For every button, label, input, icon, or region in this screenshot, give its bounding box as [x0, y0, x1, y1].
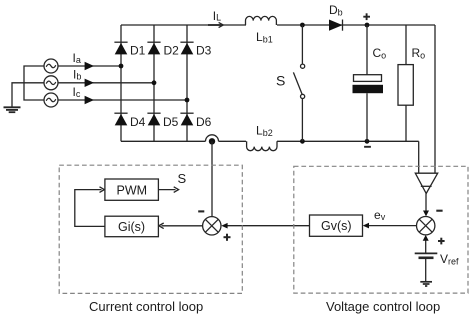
node minus output label — [364, 146, 371, 148]
wire phase a arrow — [85, 62, 94, 70]
node plus output label — [363, 13, 370, 20]
ground (left) — [4, 107, 21, 112]
svg-text:S: S — [178, 171, 187, 186]
node IL arrow — [208, 22, 223, 27]
svg-text:S: S — [276, 73, 285, 89]
arrow into Gi(s) — [159, 223, 164, 229]
wire sensor tap to current summer — [211, 141, 213, 216]
diode D4 — [114, 113, 127, 125]
diode D5 — [147, 113, 160, 125]
svg-text:Ib: Ib — [73, 68, 81, 82]
block PWM — [105, 179, 158, 200]
AC source Vb — [44, 76, 58, 90]
wire Ro lower — [405, 105, 407, 141]
block Gv(s) — [310, 215, 363, 236]
junction phase a / leg1 — [119, 64, 124, 69]
wire bridge leg 1 — [120, 25, 122, 141]
wire Gi to PWM — [75, 190, 105, 227]
svg-text:D4: D4 — [130, 115, 146, 129]
diode D6 — [180, 113, 193, 125]
svg-text:Ia: Ia — [73, 51, 81, 65]
inductor Lb2 — [247, 141, 277, 150]
svg-text:D2: D2 — [164, 44, 180, 58]
junction phase c / leg3 — [185, 98, 190, 103]
svg-text:Gi(s): Gi(s) — [118, 220, 145, 234]
wire bridge leg 2 — [153, 25, 155, 141]
junction Co bottom — [365, 139, 370, 144]
wire Gv to current summer — [225, 225, 310, 227]
inductor Lb1 — [246, 16, 277, 25]
arrow into Gv(s) — [363, 223, 369, 229]
wire phase b arrow — [85, 79, 94, 87]
arrow into voltage summer (bottom from Vref) — [425, 239, 427, 253]
current summer plus label — [224, 234, 231, 241]
junction switch top — [300, 23, 305, 28]
svg-text:Vref: Vref — [440, 252, 459, 267]
svg-text:Ic: Ic — [73, 85, 81, 99]
wire Co upper — [366, 25, 368, 75]
arrow into current summer (right) — [221, 223, 227, 229]
wire feedback plus (right edge down) — [434, 25, 436, 173]
arrow PWM output S — [174, 187, 179, 193]
wire phase c — [58, 99, 187, 101]
svg-text:Voltage control loop: Voltage control loop — [326, 299, 440, 314]
wire phase c arrow — [85, 96, 94, 104]
wire neutral top — [24, 66, 44, 100]
svg-text:D1: D1 — [130, 44, 146, 58]
voltage summer minus label — [436, 210, 442, 212]
wire bottom rail right (Lb2 to right corner) — [277, 140, 419, 142]
svg-text:Lb2: Lb2 — [256, 124, 273, 139]
diode D2 — [147, 42, 160, 54]
summing junction voltage — [417, 217, 435, 235]
diode Db — [329, 20, 343, 31]
svg-text:Current control loop: Current control loop — [89, 299, 203, 314]
svg-text:D6: D6 — [196, 115, 212, 129]
resistor Ro — [398, 65, 413, 106]
ground (Vref) — [420, 282, 432, 286]
wire feedback minus (bottom rail down) — [418, 141, 420, 173]
svg-text:PWM: PWM — [117, 184, 148, 198]
block Gi(s) — [105, 216, 158, 237]
voltage summer plus label — [438, 238, 445, 245]
wire switch lower — [301, 99, 303, 142]
AC source Va — [44, 59, 58, 73]
svg-text:D5: D5 — [163, 115, 179, 129]
svg-text:Db: Db — [329, 3, 343, 18]
svg-text:Gv(s): Gv(s) — [321, 219, 352, 233]
svg-text:ev: ev — [374, 208, 386, 222]
svg-text:IL: IL — [213, 9, 221, 23]
svg-text:Lb1: Lb1 — [256, 30, 273, 45]
voltage sensor amplifier triangle — [415, 173, 437, 193]
switch S — [293, 64, 304, 98]
wire phase b — [58, 82, 154, 84]
junction switch bottom — [300, 139, 305, 144]
svg-text:Ro: Ro — [412, 46, 426, 61]
wire top rail left (bridge top to Lb1) — [121, 24, 246, 26]
current summer minus label — [198, 210, 204, 212]
current sensor tap dot — [209, 138, 215, 144]
wire ev (summer to Gv) — [366, 225, 417, 227]
arrow into PWM — [100, 187, 105, 193]
wire bridge leg 3 — [186, 25, 188, 141]
junction Co top — [365, 23, 370, 28]
summing junction current — [203, 217, 221, 235]
wire current summer to Gi — [162, 225, 203, 227]
wire phase a — [58, 65, 121, 67]
wire bottom rail left (bridge to sensor) — [121, 140, 206, 142]
wire sensor to summing junction — [425, 194, 427, 213]
wire Ro upper — [405, 25, 407, 65]
diode D3 — [180, 42, 193, 54]
wire Co lower — [366, 93, 368, 141]
dashed box current control loop — [59, 165, 242, 293]
AC source Vc — [44, 93, 58, 107]
wire neutral mid to ground — [12, 83, 44, 107]
arrow into voltage summer (top) — [423, 211, 429, 217]
current sensor hop on bottom rail — [206, 135, 219, 142]
wire PWM output — [158, 189, 175, 191]
wire top rail right (Lb1 to right corner) — [277, 24, 435, 26]
dashed box voltage control loop — [294, 166, 468, 293]
svg-text:D3: D3 — [196, 44, 212, 58]
diode D1 — [114, 42, 127, 54]
capacitor Co — [353, 75, 384, 94]
junction phase b / leg2 — [152, 80, 157, 85]
wire bottom rail mid (sensor to Lb2) — [219, 140, 247, 142]
svg-text:Co: Co — [373, 46, 387, 61]
battery Vref — [415, 253, 438, 281]
wire switch upper — [301, 25, 303, 64]
